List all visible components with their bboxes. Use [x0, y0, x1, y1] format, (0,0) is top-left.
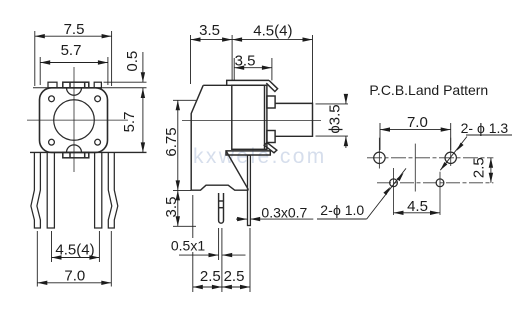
svg-text:2.5: 2.5	[471, 157, 488, 178]
svg-text:2.5: 2.5	[200, 268, 221, 285]
svg-text:7.0: 7.0	[64, 268, 85, 285]
svg-text:P.C.B.Land Pattern: P.C.B.Land Pattern	[369, 82, 488, 98]
svg-text:4.5(4): 4.5(4)	[55, 242, 94, 259]
svg-text:2-: 2-	[461, 120, 474, 136]
svg-text:2.5: 2.5	[224, 268, 245, 285]
svg-text:2-: 2-	[320, 202, 333, 218]
svg-text:0.3x0.7: 0.3x0.7	[261, 205, 307, 221]
svg-text:ϕ3.5: ϕ3.5	[327, 104, 344, 133]
svg-text:4.5: 4.5	[407, 198, 428, 215]
svg-text:kxwele.com: kxwele.com	[193, 145, 327, 168]
svg-text:0.5x1: 0.5x1	[171, 238, 205, 254]
svg-text:3.5: 3.5	[163, 197, 180, 218]
svg-text:ϕ 1.3: ϕ 1.3	[477, 120, 508, 136]
svg-text:6.75: 6.75	[163, 127, 180, 156]
svg-text:ϕ 1.0: ϕ 1.0	[333, 202, 364, 218]
svg-text:4.5(4): 4.5(4)	[253, 23, 292, 40]
svg-text:5.7: 5.7	[61, 42, 82, 59]
svg-text:7.5: 7.5	[64, 21, 85, 38]
svg-text:7.0: 7.0	[407, 114, 428, 131]
svg-text:3.5: 3.5	[235, 53, 256, 70]
svg-text:3.5: 3.5	[199, 22, 220, 39]
svg-text:5.7: 5.7	[121, 112, 138, 133]
svg-text:0.5: 0.5	[124, 51, 141, 72]
